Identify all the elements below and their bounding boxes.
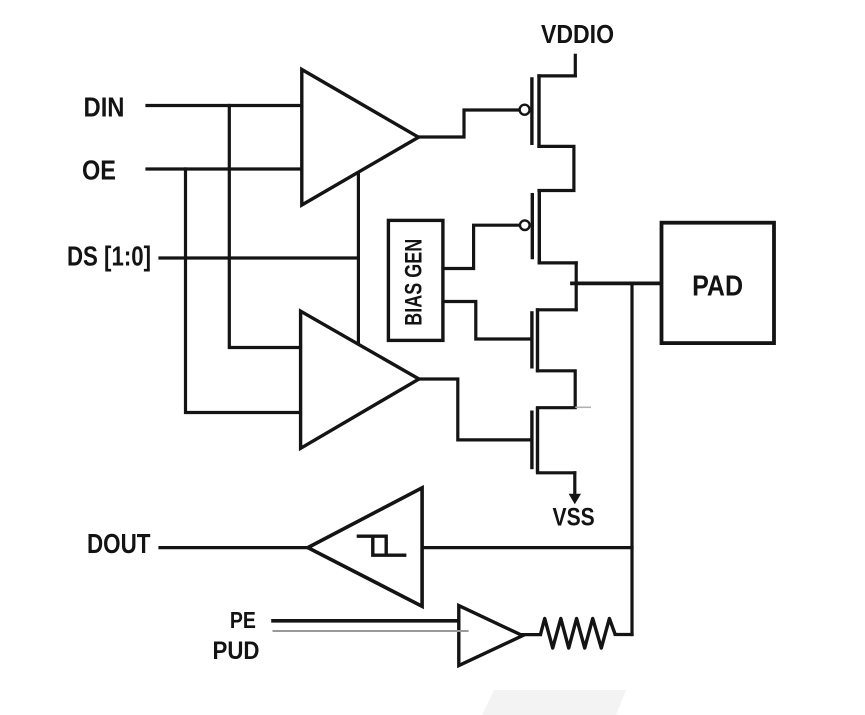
wire DOUT to Schmitt U3	[160, 546, 308, 549]
wire M1 source lead	[539, 74, 575, 77]
svg-text:BIAS GEN: BIAS GEN	[401, 239, 428, 326]
wire U4 output to resistor	[523, 633, 541, 636]
watermark parallelogram	[482, 690, 626, 715]
transistor M4 NMOS channel	[536, 407, 539, 472]
wire PUD (gray)	[273, 630, 469, 632]
VSS arrow	[569, 494, 581, 505]
transistor M3 NMOS channel	[536, 308, 539, 372]
wire M2 drain to PAD node	[539, 261, 576, 264]
gray tick near M3/M4 node	[575, 406, 591, 408]
buffer U2 (pull-down pre-driver)	[301, 311, 419, 448]
transistor M2 PMOS channel	[538, 189, 541, 264]
PAD box	[662, 223, 775, 343]
wire PAD node horizontal	[572, 281, 662, 285]
buffer U4 (pull resistor enable)	[459, 606, 523, 666]
svg-text:VDDIO: VDDIO	[541, 19, 614, 49]
svg-text:PAD: PAD	[692, 271, 743, 303]
wire U1 output to M1 gate	[420, 110, 520, 137]
wire resistor to PAD net vertical	[615, 633, 632, 636]
resistor R1	[541, 619, 616, 649]
wire M4 source down to VSS	[573, 473, 576, 496]
wire M2/M3 drain vertical	[575, 263, 578, 310]
svg-text:PUD: PUD	[213, 637, 260, 665]
transistor M1 gate bubble	[520, 105, 530, 115]
Schmitt hysteresis symbol	[357, 536, 407, 555]
wire M3 source to M4 drain	[538, 371, 576, 408]
wire BIAS GEN lower lead to M3 gate	[443, 302, 532, 340]
buffer U1 (pull-up pre-driver)	[302, 70, 419, 206]
svg-text:OE: OE	[82, 155, 116, 186]
wire PE to buffer U4	[273, 619, 459, 623]
transistor M2 PMOS gate plate	[531, 193, 534, 259]
transistor M1 PMOS channel	[537, 74, 540, 148]
wire DIN branch down to buffer U2	[229, 106, 301, 348]
wire OE to buffer U1	[147, 167, 302, 170]
wire BIAS GEN upper lead to M2 gate	[443, 225, 520, 268]
svg-text:VSS: VSS	[553, 504, 595, 532]
wire OE branch down to buffer U2	[186, 169, 302, 413]
wire DIN to buffer U1	[147, 104, 302, 107]
transistor M2 gate bubble	[520, 220, 530, 230]
wire DS vertical between buffers	[357, 173, 360, 345]
wire M4 source lead	[538, 471, 575, 474]
wire U2 output to M4 gate	[420, 379, 532, 440]
svg-text:PE: PE	[230, 607, 256, 633]
wire VDDIO stem	[574, 55, 577, 76]
Schmitt buffer U3	[308, 488, 422, 607]
svg-text:DIN: DIN	[84, 92, 125, 123]
wire PAD node vertical down to resistor	[630, 283, 633, 634]
svg-text:DOUT: DOUT	[87, 528, 151, 559]
wire DS[1:0]	[160, 256, 358, 259]
transistor M1 PMOS gate plate	[530, 77, 533, 145]
BIAS GEN box	[388, 220, 443, 340]
wire M1 drain to M2 source	[539, 146, 574, 190]
wire U3 input from PAD net	[422, 546, 632, 549]
transistor M4 NMOS gate plate	[530, 411, 533, 470]
wire M3 drain lead	[538, 308, 577, 311]
transistor M3 NMOS gate plate	[530, 311, 533, 368]
svg-text:DS [1:0]: DS [1:0]	[67, 241, 151, 272]
